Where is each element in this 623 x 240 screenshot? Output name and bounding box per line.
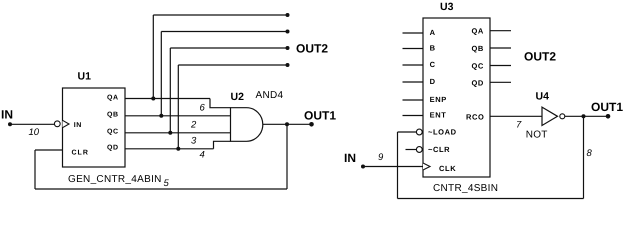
node dot OUT1 right junction [582,114,586,118]
node IN dot right [361,165,365,169]
wire U3 QA stub [490,30,511,32]
wire U3 pin B stub [403,48,424,50]
svg-text:CLR: CLR [72,149,89,156]
svg-text:2: 2 [190,119,197,130]
wire OUT1 feedback down [286,124,288,189]
svg-text:~LOAD: ~LOAD [428,128,457,137]
wire vertical QA to top line 1 [152,15,154,99]
svg-text:QC: QC [107,129,119,136]
svg-text:IN: IN [74,122,82,129]
wire QA row [125,98,210,100]
svg-text:B: B [430,44,436,53]
node dot QB junction [159,114,163,118]
svg-text:ENT: ENT [430,111,447,120]
wire feedback bottom right [398,198,584,200]
svg-text:CNTR_4SBIN: CNTR_4SBIN [433,183,498,194]
svg-text:OUT1: OUT1 [591,100,623,114]
wire top line 3 OUT2 [170,47,287,49]
svg-text:U1: U1 [78,71,92,83]
svg-text:7: 7 [516,120,522,131]
U1 clock triangle [63,120,70,127]
wire feedback up-left [34,150,36,189]
svg-text:U2: U2 [231,91,245,103]
svg-text:QA: QA [107,94,119,101]
wire top line 1 [153,14,287,16]
svg-text:3: 3 [191,135,197,146]
op AND4 gate U2 body [231,108,263,142]
svg-text:IN: IN [344,151,356,165]
svg-text:IN: IN [1,108,13,122]
wire QB row [125,115,231,117]
node dot QC junction [168,131,172,135]
svg-text:NOT: NOT [526,130,548,141]
svg-text:D: D [430,77,436,86]
U3 counter box [423,18,490,177]
svg-text:ENP: ENP [430,95,447,104]
node dot OUT1 end [309,122,314,127]
svg-text:QA: QA [472,27,484,36]
wire IN to U1 clock bubble [10,123,54,125]
svg-text:QC: QC [472,62,484,71]
svg-text:5: 5 [164,178,170,189]
node dot OUT1 right end [606,114,611,119]
svg-text:AND4: AND4 [256,90,284,101]
svg-text:U3: U3 [440,1,454,13]
wire top line 2 [161,31,287,33]
svg-text:~CLR: ~CLR [428,145,450,154]
svg-text:6: 6 [200,103,206,114]
node dot OUT1 junction [285,122,289,126]
wire U3 pin ENT stub [403,115,424,117]
wire U3 QD stub [490,81,511,83]
svg-text:OUT2: OUT2 [296,42,328,56]
wire U3 pin C stub [403,64,424,66]
svg-text:8: 8 [587,148,593,159]
node IN dot left [8,122,12,126]
wire QA step down to AND input 1 [210,99,231,108]
svg-text:QB: QB [107,112,119,119]
node dot top line 1 end [286,13,290,17]
wire U3 pin D stub [403,81,424,83]
wire ~LOAD to vertical [398,131,417,133]
U3 ~LOAD bubble [416,129,422,135]
svg-text:OUT1: OUT1 [304,108,336,122]
U3 CLK triangle [423,163,430,170]
node dot QD junction [176,147,180,151]
U1 clock bubble [54,121,60,127]
wire IN to CLK [363,166,423,168]
wire to CLR pin [35,149,63,151]
svg-text:OUT2: OUT2 [524,50,556,64]
wire AND output to OUT1 [263,123,312,125]
svg-text:9: 9 [378,152,384,163]
svg-text:10: 10 [29,127,40,138]
svg-text:QD: QD [107,145,119,152]
node dot top line 3 end [286,46,290,50]
wire QD step up to AND input 4 [214,141,231,149]
svg-text:C: C [430,60,436,69]
svg-text:A: A [430,28,436,37]
wire U3 pin ENP stub [403,99,424,101]
U3 ~CLR bubble [416,147,422,153]
wire OUT1 feedback down right [583,116,585,198]
svg-text:GEN_CNTR_4ABIN: GEN_CNTR_4ABIN [68,174,162,185]
svg-text:4: 4 [200,150,205,161]
wire U3 QB stub [490,47,511,49]
wire NOT output to OUT1 [565,115,608,117]
op NOT gate U4 triangle [542,107,558,125]
node dot top line 4 end [286,63,290,67]
U1 counter box [63,88,126,167]
wire RCO to NOT gate [490,115,542,117]
wire top line 4 [178,64,287,66]
svg-text:QD: QD [472,79,484,88]
wire U3 pin A stub [403,32,424,34]
wire vertical QD to top line 4 [177,65,179,149]
svg-text:RCO: RCO [466,113,484,122]
svg-text:QB: QB [472,44,484,53]
wire U3 QC stub [490,65,511,67]
wire QC row [125,132,231,134]
wire feedback bottom [35,188,287,190]
wire vertical QC to top line 3 (OUT2) [169,48,171,133]
svg-text:CLK: CLK [439,164,456,173]
node dot QA junction [151,97,155,101]
svg-text:U4: U4 [536,91,550,103]
wire QD row [125,148,214,150]
node dot top line 2 end [286,30,290,34]
wire ~CLR stub [406,149,417,151]
wire vertical QB to top line 2 [160,32,162,116]
wire ~LOAD vertical down [397,132,399,199]
U4 output bubble [560,114,565,119]
